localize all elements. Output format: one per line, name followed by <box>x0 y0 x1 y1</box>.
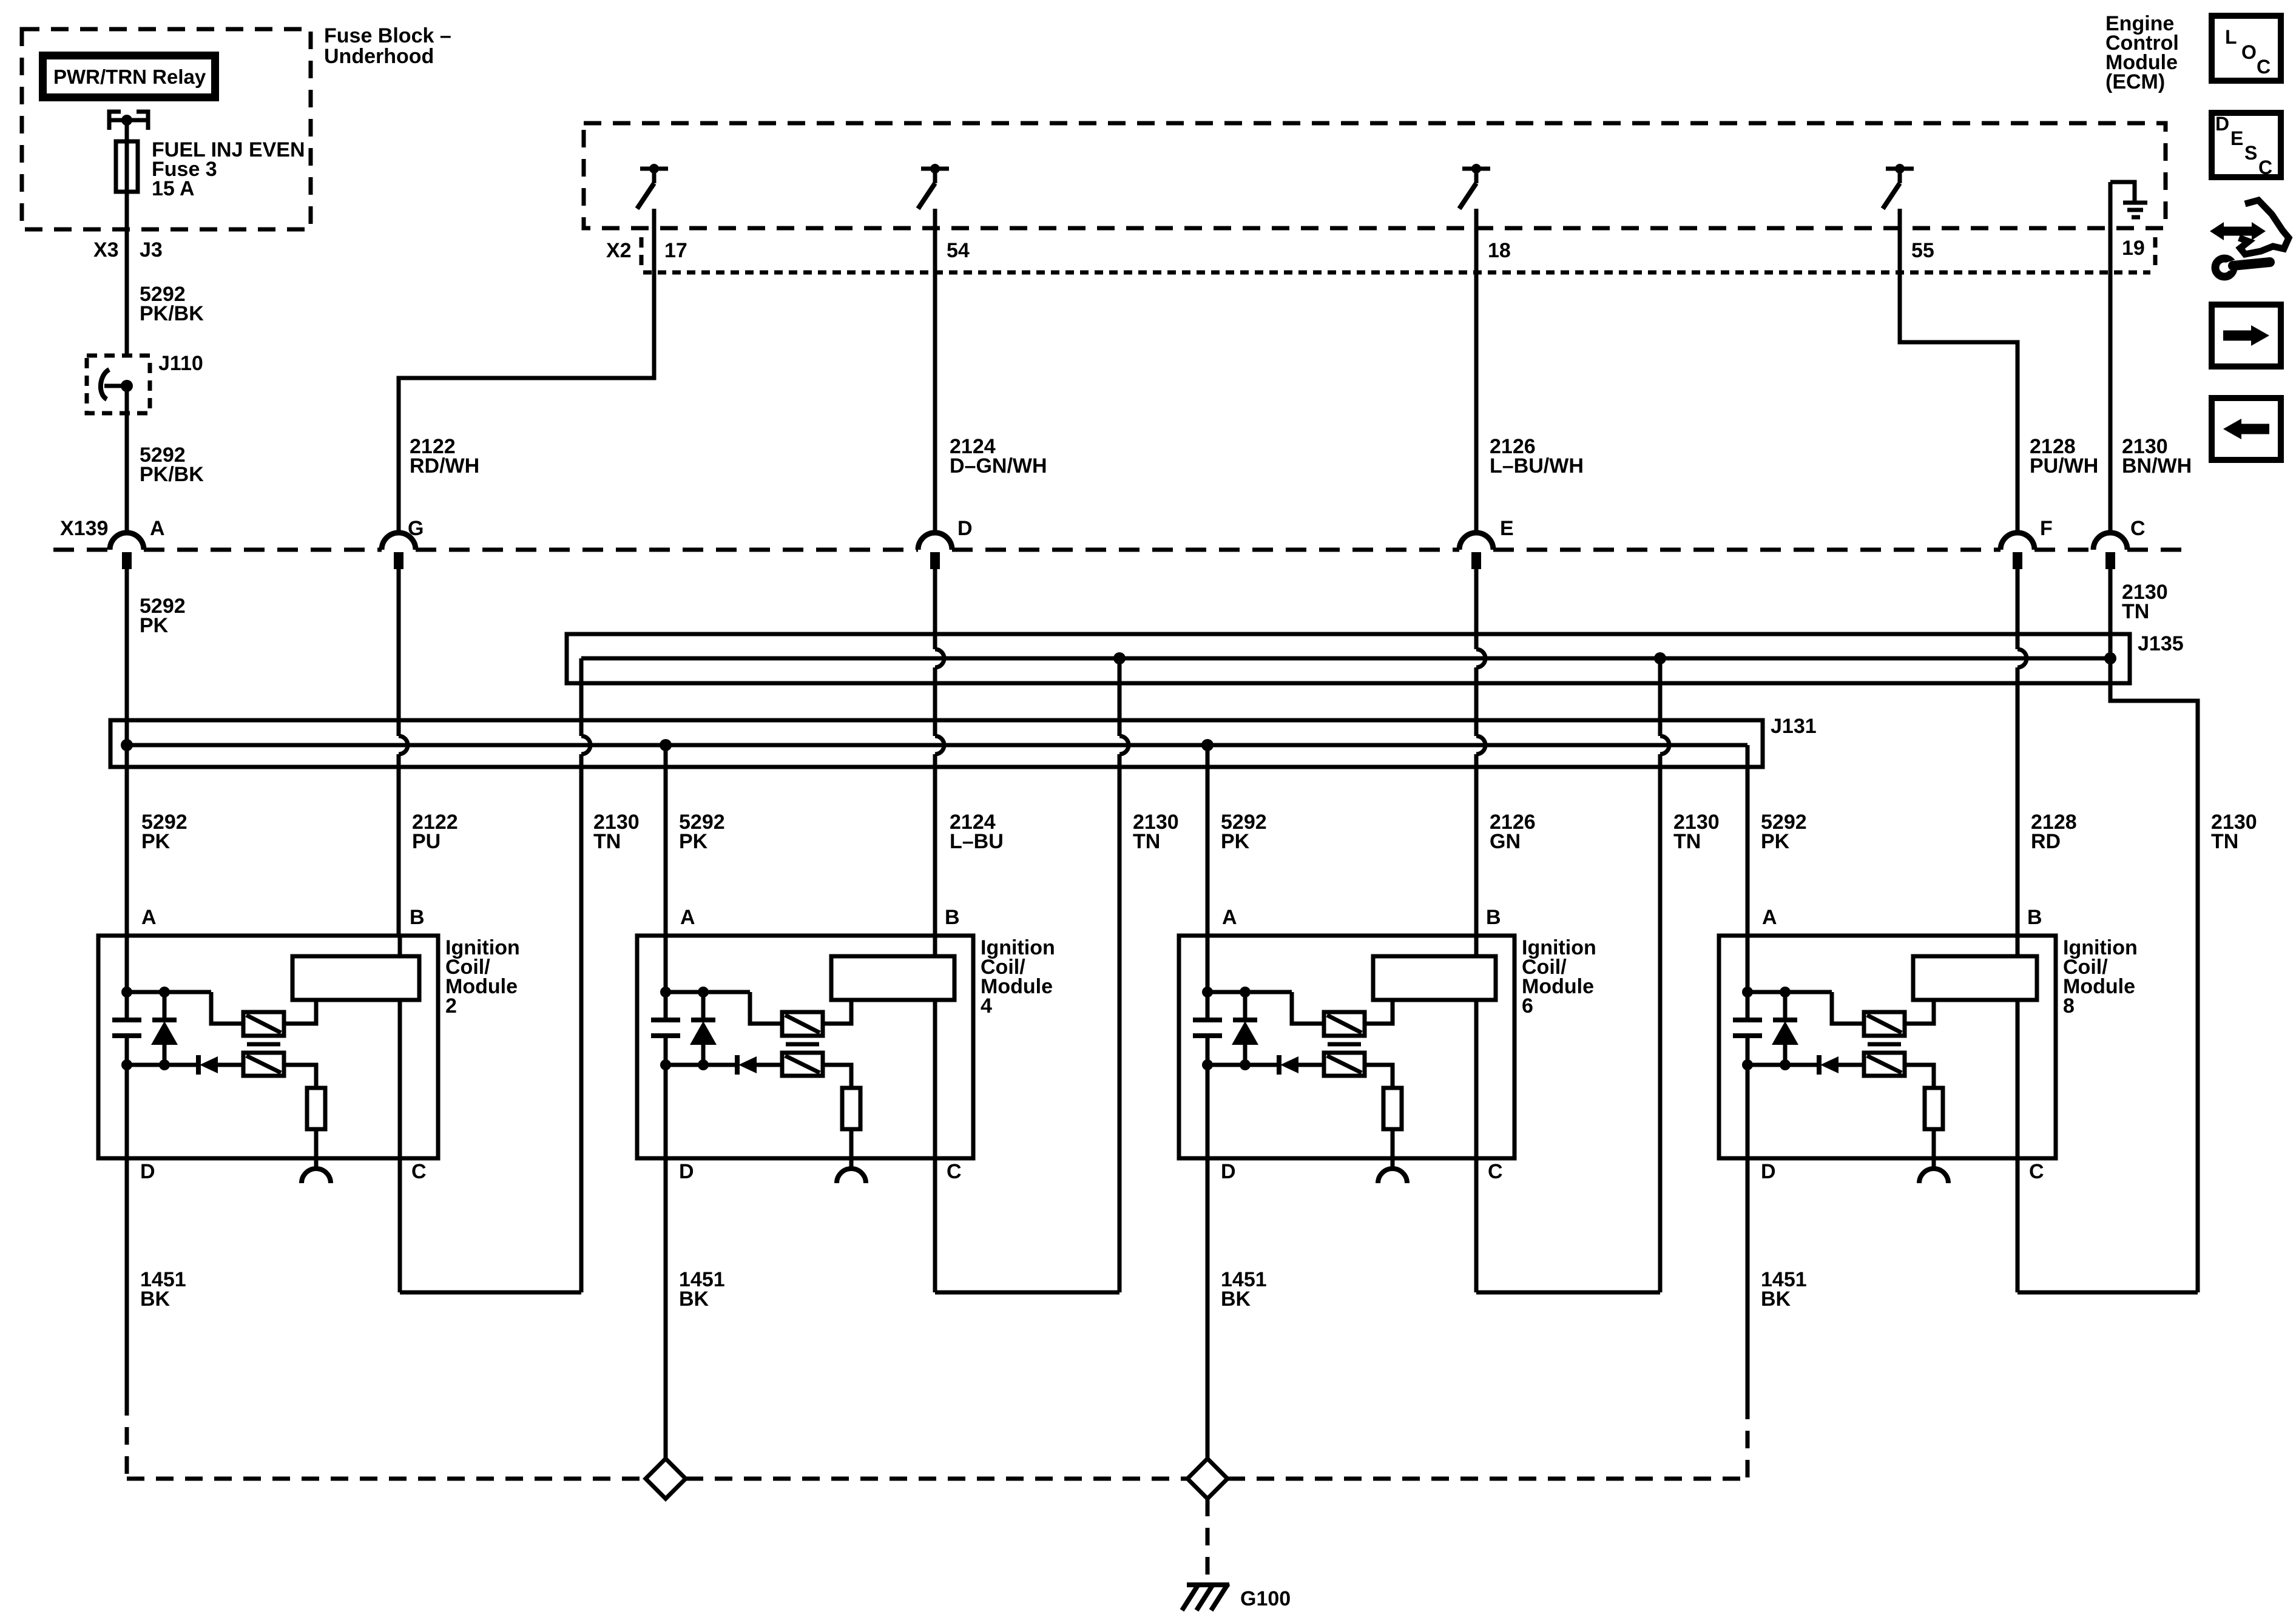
icon arrow left box <box>2212 398 2281 460</box>
wire 2130 TN bottom link coil 6 <box>1476 1158 1660 1292</box>
pin D label coil 8 <box>1761 1160 1776 1183</box>
wire label 5292 PK below X139 <box>140 595 186 637</box>
svg-text:PU: PU <box>412 830 441 853</box>
splice J131 wire (middle line) <box>127 743 1747 748</box>
coil 6 spark gap output <box>1378 1129 1407 1183</box>
wire relay to fuse <box>125 120 129 141</box>
svg-text:19: 19 <box>2122 237 2145 260</box>
svg-text:E: E <box>1500 517 1514 540</box>
coil 2 zener diode <box>151 992 178 1065</box>
svg-text:D: D <box>679 1160 694 1183</box>
wire label 1451 BK coil 4 <box>679 1268 725 1311</box>
coil 4 resistor <box>842 1088 860 1129</box>
svg-text:C: C <box>2257 56 2271 78</box>
icon swap-parts: part outline <box>2239 200 2289 254</box>
coil 8 wire primary to coil tower <box>1905 1000 1934 1024</box>
svg-text:F: F <box>2040 517 2053 540</box>
svg-text:D: D <box>957 517 973 540</box>
svg-text:C: C <box>947 1160 962 1183</box>
wire label 1451 BK coil 8 <box>1761 1268 1807 1311</box>
svg-text:C: C <box>411 1160 427 1183</box>
pin A label coil 6 <box>1222 906 1237 929</box>
pin 19 label and separator <box>2122 237 2155 266</box>
coil 4 secondary tower box <box>831 956 954 1000</box>
wire label 5292 PK coil4 <box>679 811 725 853</box>
pass-through connector diamond at coil 6 drop <box>1187 1459 1227 1499</box>
svg-text:D: D <box>1761 1160 1776 1183</box>
wire label 2130 TN below X139 <box>2122 581 2168 623</box>
svg-text:BK: BK <box>679 1288 709 1311</box>
X139 pin D connector <box>918 517 973 569</box>
splice J131 junction dot wire A <box>121 739 133 751</box>
pin C label coil 8 <box>2029 1160 2044 1183</box>
svg-text:A: A <box>1762 906 1777 929</box>
svg-text:6: 6 <box>1522 994 1533 1018</box>
svg-text:PK: PK <box>679 830 708 853</box>
wire 5292 feed to coil 4 pin A <box>664 745 668 936</box>
coil 8 wire secondary to resistor <box>1905 1065 1934 1088</box>
ECM driver switch pin 55 <box>1883 164 1914 209</box>
wire J110 down to X139 pin A <box>125 386 129 533</box>
coil 2 transformer secondary winding <box>243 1053 284 1076</box>
ground bus dashed run <box>127 1477 1747 1481</box>
coil 4 zener diode <box>690 992 717 1065</box>
ignition coil module 6 box <box>1179 936 1514 1158</box>
svg-text:TN: TN <box>2122 600 2149 623</box>
wire label 2122 PU coil2 <box>412 811 458 853</box>
label J131 <box>1771 715 1817 738</box>
wire 2124 from pin 54 <box>933 209 937 533</box>
icon swap-parts: double arrow <box>2210 222 2266 240</box>
svg-text:C: C <box>2258 157 2272 178</box>
pin 55 label <box>1911 239 1934 262</box>
label Ignition Coil/Module 4 <box>981 936 1055 1018</box>
pin 17 label <box>664 239 687 262</box>
coil 4 transformer primary winding <box>782 1012 823 1036</box>
icon arrow right box <box>2212 305 2281 366</box>
wire 2126 from pin 18 <box>1474 209 1479 533</box>
svg-text:Underhood: Underhood <box>324 45 434 68</box>
wire label 2128 RD coil8 <box>2031 811 2077 853</box>
connector X139 dashed line <box>53 548 2193 552</box>
pin A label coil 8 <box>1762 906 1777 929</box>
svg-text:BK: BK <box>140 1288 171 1311</box>
svg-text:RD: RD <box>2031 830 2061 853</box>
X139 pin F connector <box>2001 517 2053 569</box>
pin B label coil 6 <box>1486 906 1501 929</box>
svg-text:TN: TN <box>2211 830 2238 853</box>
wire label 5292 PK coil2 <box>141 811 187 853</box>
svg-text:A: A <box>1222 906 1237 929</box>
coil 6 secondary tower box <box>1373 956 1496 1000</box>
svg-text:15 A: 15 A <box>152 177 195 200</box>
coil 2 pin C wire from tower <box>398 1000 402 1158</box>
wire 1451 BK coil 2 ground drop <box>125 1158 129 1479</box>
coil 6 pin D wire <box>1206 1065 1210 1158</box>
coil 2 pin B wire into tower <box>398 936 402 956</box>
coil 4 internal bottom rail and junction dots <box>660 1059 737 1070</box>
coil 4 transformer core <box>786 1042 819 1047</box>
wire label 2130 BN/WH <box>2122 435 2192 478</box>
svg-text:TN: TN <box>1673 830 1701 853</box>
coil 2 transformer core <box>247 1042 280 1047</box>
coil 8 capacitor <box>1733 992 1762 1065</box>
wire label 2130 TN coil6 <box>1673 811 1720 853</box>
svg-text:17: 17 <box>664 239 687 262</box>
svg-text:B: B <box>410 906 425 929</box>
svg-text:54: 54 <box>947 239 970 262</box>
label G100 <box>1240 1587 1291 1610</box>
label Ignition Coil/Module 2 <box>445 936 520 1018</box>
coil 8 pin C wire from tower <box>2016 1000 2020 1158</box>
fuse block underhood dashed box <box>22 29 311 229</box>
splice J110 dashed box <box>87 356 150 413</box>
pin A label coil 4 <box>680 906 695 929</box>
ignition coil module 2 box <box>98 936 438 1158</box>
pin D label coil 6 <box>1221 1160 1236 1183</box>
pin C label coil 6 <box>1488 1160 1503 1183</box>
coil 8 zener diode <box>1772 992 1798 1065</box>
pin B label coil 4 <box>945 906 960 929</box>
splice J135 junction dot coil4 drop <box>1113 652 1126 664</box>
fuse F3: FUEL INJ EVEN Fuse 3 15A <box>116 141 138 192</box>
wire 2128 F to coil 8 pin B with hop over J135 <box>2017 569 2027 936</box>
coil 4 pin B wire into tower <box>933 936 937 956</box>
splice J135 outline box <box>567 634 2130 683</box>
svg-text:2: 2 <box>445 994 457 1018</box>
coil 6 capacitor <box>1193 992 1222 1065</box>
wire label 5292 PK coil8 <box>1761 811 1807 853</box>
wire fuse down through fuse block edge <box>125 192 129 356</box>
svg-text:D: D <box>1221 1160 1236 1183</box>
wire label 2130 TN coil4 <box>1133 811 1179 853</box>
wire label 2126 GN coil6 <box>1490 811 1536 853</box>
coil 8 internal node top rail and junction dots <box>1742 936 1864 1024</box>
svg-text:L–BU/WH: L–BU/WH <box>1490 454 1584 478</box>
wire label 5292 PK/BK lower <box>140 444 204 486</box>
X139 pin A connector <box>110 517 165 569</box>
svg-text:PU/WH: PU/WH <box>2030 454 2098 478</box>
label J110 <box>158 352 203 375</box>
svg-text:X139: X139 <box>60 517 108 540</box>
wire 1451 BK coil 6 ground drop <box>1206 1158 1210 1459</box>
pin 54 label <box>947 239 970 262</box>
svg-text:B: B <box>1486 906 1501 929</box>
wire label 5292 PK/BK upper <box>140 283 204 325</box>
coil 6 pin C wire from tower <box>1474 1000 1479 1158</box>
svg-text:18: 18 <box>1488 239 1511 262</box>
svg-text:X3: X3 <box>93 238 119 262</box>
coil 2 wire primary to coil tower <box>284 1000 316 1024</box>
pin C label coil 4 <box>947 1160 962 1183</box>
pin 18 label <box>1488 239 1511 262</box>
svg-text:B: B <box>945 906 960 929</box>
label Ignition Coil/Module 8 <box>2063 936 2138 1018</box>
wire 2130 TN bottom link coil 2 <box>400 1158 581 1292</box>
ECM internal ground symbol at pin 19 <box>2110 182 2147 217</box>
pin B label coil 2 <box>410 906 425 929</box>
svg-text:A: A <box>150 517 165 540</box>
fuse label <box>152 138 305 200</box>
pin J3 label <box>140 238 163 262</box>
svg-text:S: S <box>2244 142 2257 164</box>
svg-text:PK/BK: PK/BK <box>140 302 204 325</box>
wire label 2126 L-BU/WH <box>1490 435 1584 478</box>
svg-text:Fuse Block –: Fuse Block – <box>324 24 451 47</box>
wire 2130 C to J135 then jog right <box>2110 569 2198 1292</box>
svg-text:A: A <box>680 906 695 929</box>
connector X139 label <box>60 517 108 540</box>
splice J131 junction dot coil4 feed <box>660 739 672 751</box>
splice J131 junction dot coil6 feed <box>1201 739 1214 751</box>
wire label 1451 BK coil 2 <box>140 1268 186 1311</box>
coil 6 resistor <box>1383 1088 1402 1129</box>
svg-text:J3: J3 <box>140 238 163 262</box>
coil 6 internal node top rail and junction dots <box>1202 936 1324 1024</box>
svg-text:D: D <box>140 1160 155 1183</box>
wire label 1451 BK coil 6 <box>1221 1268 1267 1311</box>
label Ignition Coil/Module 6 <box>1522 936 1596 1018</box>
splice J131 outline box <box>110 720 1763 767</box>
wire label 2130 TN coil2 <box>593 811 640 853</box>
wire 2122 from pin 17 with jog to G <box>399 209 654 533</box>
splice J110 symbol: dot, stub, hook <box>101 370 133 399</box>
pin X3 label <box>93 238 119 262</box>
coil 2 wire secondary to resistor <box>284 1065 316 1088</box>
coil 2 transformer primary winding <box>243 1012 284 1036</box>
svg-text:A: A <box>141 906 157 929</box>
ground G100 symbol <box>1182 1584 1229 1610</box>
pin C label coil 2 <box>411 1160 427 1183</box>
coil 2 spark gap output <box>302 1129 331 1183</box>
svg-text:J131: J131 <box>1771 715 1817 738</box>
svg-text:L–BU: L–BU <box>950 830 1004 853</box>
X139 pin C connector <box>2093 517 2146 569</box>
icon DESC box <box>2212 113 2281 178</box>
svg-text:B: B <box>2027 906 2042 929</box>
wire 1451 BK coil 8 ground drop <box>1746 1158 1750 1479</box>
svg-text:E: E <box>2230 127 2243 149</box>
coil 6 transformer secondary winding <box>1324 1053 1365 1076</box>
wire label 5292 PK coil6 <box>1221 811 1267 853</box>
svg-text:C: C <box>2029 1160 2044 1183</box>
coil 2 secondary tower box <box>292 956 419 1000</box>
coil 8 internal bottom rail and junction dots <box>1742 1059 1819 1070</box>
ECM driver switch pin 54 <box>918 164 949 209</box>
svg-text:PK: PK <box>1761 830 1790 853</box>
svg-text:J135: J135 <box>2138 632 2184 655</box>
pin D label coil 2 <box>140 1160 155 1183</box>
svg-text:L: L <box>2225 26 2237 48</box>
ignition coil module 4 box <box>637 936 973 1158</box>
coil 2 internal bottom rail and junction dots <box>121 1059 198 1070</box>
coil 4 internal node top rail and junction dots <box>660 936 782 1024</box>
wire label 2122 RD/WH <box>410 435 479 478</box>
label Fuse Block - Underhood <box>324 24 451 68</box>
relay contact symbol <box>109 112 148 130</box>
coil 4 capacitor <box>651 992 680 1065</box>
coil 4 transformer secondary winding <box>782 1053 823 1076</box>
relay K: PWR/TRN Relay label box <box>43 56 215 98</box>
coil 2 pin D wire <box>125 1065 129 1158</box>
ignition coil module 8 box <box>1719 936 2056 1158</box>
wire 2126 E to coil 6 pin B with hops over J135 and J131 <box>1476 569 1485 936</box>
wire 5292 feed to coil 8 pin A <box>1746 745 1750 936</box>
coil 8 transformer secondary winding <box>1864 1053 1905 1076</box>
splice J135 junction dot coil6 drop <box>1654 652 1666 664</box>
svg-text:D: D <box>2215 113 2229 135</box>
coil 8 secondary tower box <box>1913 956 2037 1000</box>
wire 2122 G to coil 2 pin B with hop over J131 <box>399 569 408 936</box>
label J135 <box>2138 632 2184 655</box>
pin D label coil 4 <box>679 1160 694 1183</box>
wire label 2124 D-GN/WH <box>950 435 1047 478</box>
icon swap-parts: wrench <box>2215 258 2270 277</box>
coil 8 transformer core <box>1868 1042 1901 1047</box>
wire label 2128 PU/WH <box>2030 435 2098 478</box>
svg-text:BK: BK <box>1761 1288 1791 1311</box>
svg-text:4: 4 <box>981 994 992 1018</box>
wire label 2124 L-BU coil4 <box>950 811 1004 853</box>
X139 pin G connector <box>382 517 424 569</box>
svg-text:TN: TN <box>1133 830 1160 853</box>
coil 2 resistor <box>307 1088 325 1129</box>
ECM driver switch pin 18 <box>1459 164 1490 209</box>
coil 4 pin D wire <box>664 1065 668 1158</box>
label Engine Control Module (ECM) <box>2105 12 2179 93</box>
wire 2130 TN bottom link coil 8 <box>2017 1158 2198 1292</box>
wire label 2130 TN coil8 <box>2211 811 2257 853</box>
wire 2130 TN drop to coil 6 with hop over J131 <box>1660 658 1669 1292</box>
svg-text:C: C <box>1488 1160 1503 1183</box>
coil 4 wire primary to coil tower <box>823 1000 851 1024</box>
coil 6 diode <box>1279 1055 1324 1075</box>
coil 4 pin C wire from tower <box>933 1000 937 1158</box>
coil 6 internal bottom rail and junction dots <box>1202 1059 1279 1070</box>
svg-text:GN: GN <box>1490 830 1521 853</box>
coil 8 diode <box>1819 1055 1864 1075</box>
svg-text:BK: BK <box>1221 1288 1251 1311</box>
wire 2124 D to coil 4 pin B with hops over J135 and J131 <box>935 569 944 936</box>
svg-text:TN: TN <box>593 830 621 853</box>
wire 5292 A through J131 to coil 2 <box>125 569 129 936</box>
coil 6 wire primary to coil tower <box>1365 1000 1393 1024</box>
coil 4 spark gap output <box>837 1129 866 1183</box>
pass-through connector diamond at coil 4 drop <box>646 1459 686 1499</box>
wire 5292 feed to coil 6 pin A <box>1206 745 1210 936</box>
svg-text:X2: X2 <box>606 239 632 262</box>
svg-text:BN/WH: BN/WH <box>2122 454 2192 478</box>
coil 8 transformer primary winding <box>1864 1012 1905 1036</box>
svg-text:O: O <box>2241 41 2257 63</box>
ECM dashed box <box>584 123 2166 228</box>
svg-text:PWR/TRN Relay: PWR/TRN Relay <box>53 66 206 88</box>
wire 2130 TN bottom link coil 4 <box>935 1158 1119 1292</box>
svg-text:PK: PK <box>140 614 169 637</box>
coil 2 internal node top rail and junction dots <box>121 936 243 1024</box>
coil 6 transformer primary winding <box>1324 1012 1365 1036</box>
icon LOC box <box>2212 16 2281 81</box>
coil 2 capacitor <box>112 992 141 1065</box>
connector X2 label and separator <box>606 237 641 266</box>
wire 1451 BK coil 4 ground drop <box>664 1158 668 1459</box>
svg-text:G100: G100 <box>1240 1587 1291 1610</box>
coil 6 zener diode <box>1232 992 1258 1065</box>
ECM connector X2 dotted line <box>643 271 2150 275</box>
coil 4 wire secondary to resistor <box>823 1065 851 1088</box>
svg-text:J110: J110 <box>158 352 203 375</box>
svg-text:(ECM): (ECM) <box>2105 70 2165 93</box>
svg-text:PK: PK <box>141 830 171 853</box>
svg-text:D–GN/WH: D–GN/WH <box>950 454 1047 478</box>
splice J135 wire (middle line) <box>581 657 2110 661</box>
wire 2130 TN drop to coil 4 with hop over J131 <box>1119 658 1129 1292</box>
splice J135 junction dot pin19 wire <box>2104 652 2116 664</box>
wire 2128 from pin 55 with jog to F <box>1900 209 2017 533</box>
svg-text:PK: PK <box>1221 830 1250 853</box>
svg-text:55: 55 <box>1911 239 1934 262</box>
ECM driver switch pin 17 <box>637 164 668 209</box>
X139 pin E connector <box>1459 517 1514 569</box>
coil 6 wire secondary to resistor <box>1365 1065 1393 1088</box>
dashed drop to G100 <box>1206 1499 1210 1579</box>
pin A label coil 2 <box>141 906 157 929</box>
coil 8 pin D wire <box>1746 1065 1750 1158</box>
svg-text:G: G <box>408 517 424 540</box>
coil 6 pin B wire into tower <box>1474 936 1479 956</box>
coil 4 diode <box>737 1055 782 1075</box>
wire 2130 TN drop to coil 2 with hop over J131 <box>581 658 590 1292</box>
coil 8 pin B wire into tower <box>2016 936 2020 956</box>
pin B label coil 8 <box>2027 906 2042 929</box>
coil 6 transformer core <box>1328 1042 1361 1047</box>
coil 8 spark gap output <box>1919 1129 1948 1183</box>
coil 8 resistor <box>1925 1088 1943 1129</box>
svg-text:C: C <box>2130 517 2146 540</box>
svg-text:PK/BK: PK/BK <box>140 463 204 486</box>
svg-text:RD/WH: RD/WH <box>410 454 479 478</box>
coil 2 diode <box>198 1055 243 1075</box>
svg-text:8: 8 <box>2063 994 2075 1018</box>
wire 2130 from pin 19 <box>2109 182 2113 533</box>
